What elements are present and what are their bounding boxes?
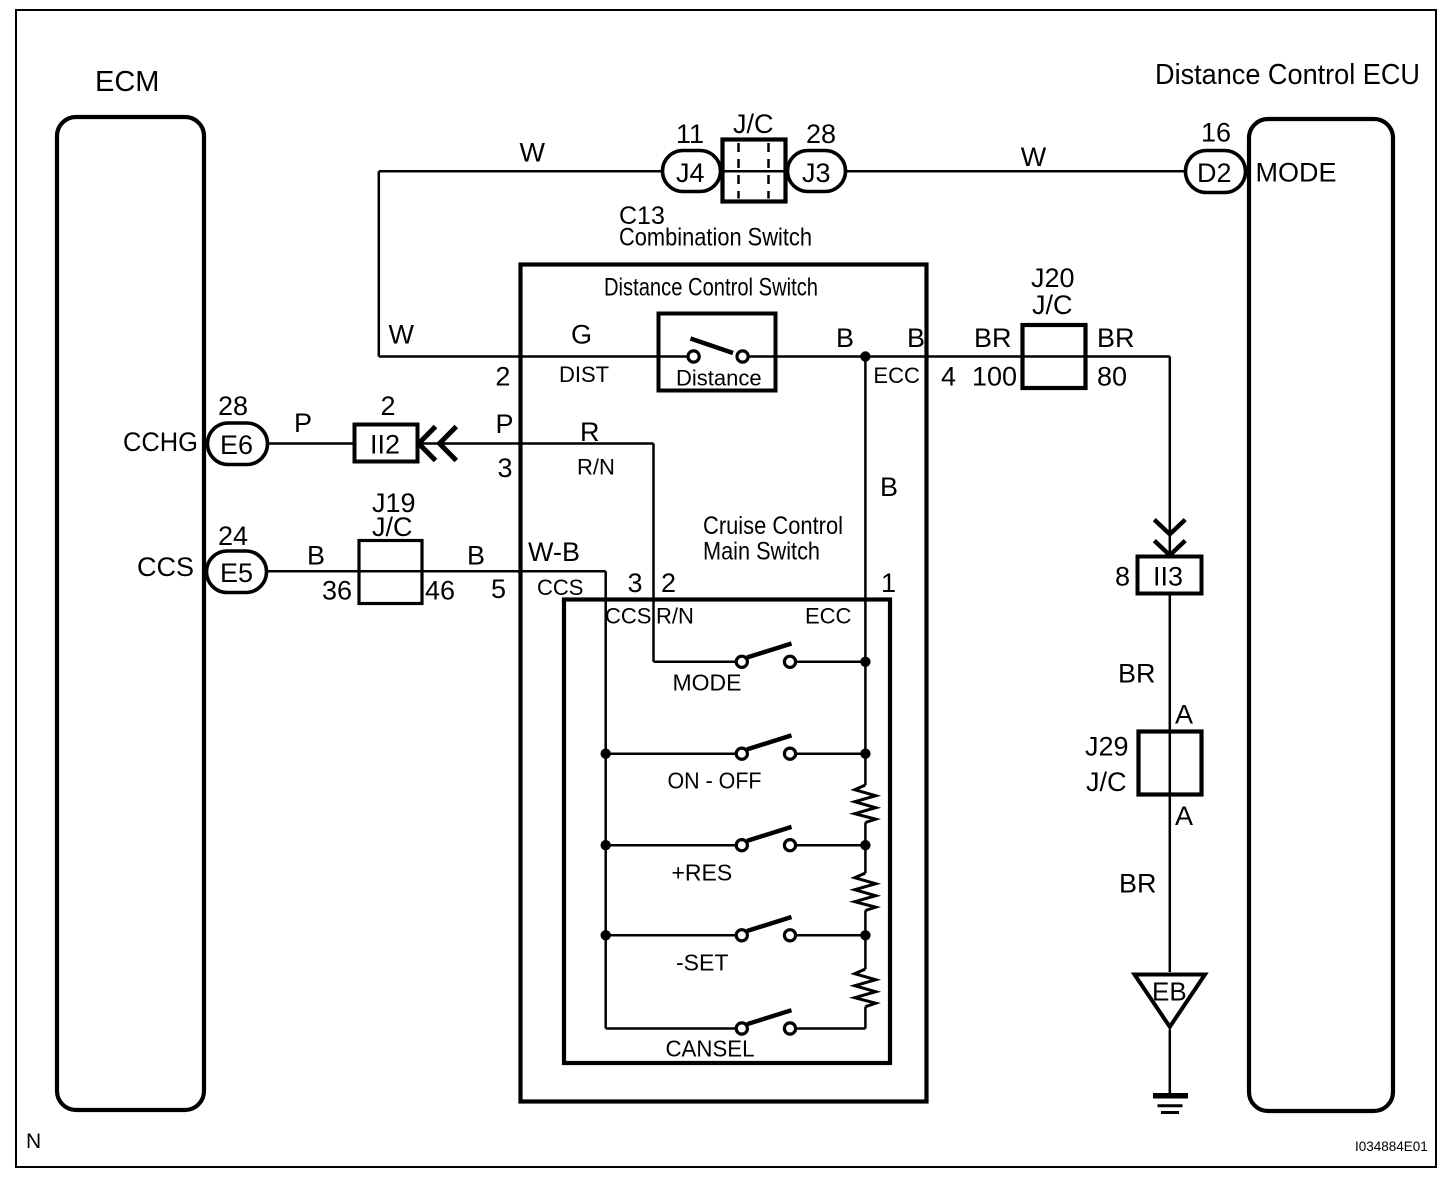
svg-text:3: 3 <box>628 568 643 598</box>
svg-text:CCS: CCS <box>137 552 194 582</box>
connector II2 pin 2 <box>355 391 418 462</box>
svg-text:B: B <box>836 323 854 353</box>
junction dot on CCS line <box>601 840 611 850</box>
Distance Control ECU block <box>1155 59 1420 1111</box>
switch -SET <box>601 917 871 976</box>
wire B (Distance switch to J20) <box>748 323 1022 392</box>
contact left <box>736 656 747 667</box>
wire B / W-B (J19 into switch) <box>422 537 606 604</box>
svg-text:W: W <box>1021 142 1047 172</box>
svg-text:W: W <box>520 138 546 168</box>
svg-text:2: 2 <box>661 568 676 598</box>
svg-text:E5: E5 <box>220 558 253 588</box>
connector J4 pin 11 <box>663 119 721 192</box>
svg-text:3: 3 <box>498 453 513 483</box>
contact left <box>736 930 747 941</box>
svg-text:16: 16 <box>1201 118 1231 148</box>
svg-text:D2: D2 <box>1197 158 1232 188</box>
svg-text:Distance: Distance <box>676 366 762 391</box>
svg-text:Distance Control Switch: Distance Control Switch <box>604 274 818 302</box>
resistor (ON-OFF to +RES) <box>855 785 876 845</box>
switch ON-OFF <box>601 735 871 793</box>
svg-text:+RES: +RES <box>672 860 733 886</box>
wire W top vertical drop <box>379 171 415 356</box>
node ECC junction <box>860 351 870 361</box>
svg-text:DIST: DIST <box>559 362 609 387</box>
switch CANSEL <box>606 1010 866 1061</box>
svg-text:R/N: R/N <box>577 455 615 480</box>
svg-text:W-B: W-B <box>528 537 580 567</box>
junction dot <box>860 930 870 940</box>
wire W top horizontal (ECM side to J4) <box>379 138 663 172</box>
svg-text:N: N <box>26 1130 41 1153</box>
svg-text:4: 4 <box>941 362 956 392</box>
junction dot <box>860 840 870 850</box>
wire CCS line to contact <box>606 752 737 755</box>
label N <box>26 1130 41 1153</box>
svg-text:I034884E01: I034884E01 <box>1355 1139 1428 1154</box>
svg-text:46: 46 <box>425 576 455 606</box>
svg-text:2: 2 <box>495 362 510 392</box>
switch lever <box>747 827 792 841</box>
Cruise Control Main Switch box <box>564 512 896 1063</box>
svg-text:1: 1 <box>881 568 896 598</box>
svg-text:24: 24 <box>218 521 248 551</box>
svg-text:BR: BR <box>1118 659 1156 689</box>
svg-text:J/C: J/C <box>1086 767 1127 797</box>
wire BR (J29 to EB) <box>1119 795 1193 973</box>
wire BR (II3 to J29) <box>1118 594 1193 732</box>
junction dot on CCS line <box>601 930 611 940</box>
contact left <box>688 351 699 362</box>
wire B (E5 to J19) <box>267 541 360 572</box>
svg-text:R/N: R/N <box>656 604 694 629</box>
svg-text:B: B <box>467 541 485 571</box>
connector D2 pin 16 MODE <box>1186 118 1337 193</box>
svg-text:MODE: MODE <box>1256 158 1337 188</box>
svg-text:100: 100 <box>972 362 1017 392</box>
wire CCS line to contact <box>606 844 737 847</box>
switch MODE <box>654 644 871 696</box>
svg-text:A: A <box>1175 801 1193 831</box>
connector J3 pin 28 <box>788 119 846 192</box>
Distance Control Switch box <box>521 265 927 1102</box>
svg-text:CCS: CCS <box>605 604 651 629</box>
wire P/R (II2 to R/N drop) <box>418 409 654 483</box>
svg-text:J/C: J/C <box>372 512 413 542</box>
svg-text:EB: EB <box>1152 977 1187 1007</box>
svg-text:CANSEL: CANSEL <box>666 1036 755 1062</box>
junction dot on CCS line <box>601 749 611 759</box>
svg-text:CCS: CCS <box>537 575 583 600</box>
connector E6 pin 28 CCHG <box>123 391 268 465</box>
wire to ECC line <box>796 752 866 755</box>
svg-text:J4: J4 <box>676 158 705 188</box>
svg-text:E6: E6 <box>220 430 253 460</box>
svg-text:Distance Control ECU: Distance Control ECU <box>1155 59 1420 91</box>
svg-text:R: R <box>580 417 600 447</box>
switch lever <box>747 644 792 658</box>
svg-text:J29: J29 <box>1085 732 1129 762</box>
wire CCS line to contact <box>606 1027 737 1030</box>
wire B/ECC vertical (junction to main switch) <box>865 357 898 786</box>
svg-text:A: A <box>1175 700 1193 730</box>
svg-text:80: 80 <box>1097 362 1127 392</box>
switch +RES <box>601 827 871 886</box>
svg-text:Main Switch: Main Switch <box>703 538 820 566</box>
svg-text:5: 5 <box>491 574 506 604</box>
wire CCS line to contact <box>606 934 737 937</box>
svg-text:BR: BR <box>1097 323 1135 353</box>
svg-text:II2: II2 <box>370 430 400 460</box>
contact right <box>784 930 795 941</box>
connector E5 pin 24 CCS <box>137 521 267 593</box>
wire EB to ground <box>1169 1030 1172 1094</box>
splice arrows into II3 <box>1154 520 1185 556</box>
contact left <box>736 1023 747 1034</box>
svg-text:8: 8 <box>1115 562 1130 592</box>
wire to resistor chain <box>796 1027 866 1030</box>
svg-text:BR: BR <box>1119 869 1157 899</box>
wire to ECC line <box>796 844 866 847</box>
svg-text:11: 11 <box>676 119 704 149</box>
wire BR (J20 to right drop) <box>1086 323 1170 392</box>
junction dot <box>860 657 870 667</box>
svg-text:36: 36 <box>322 576 352 606</box>
contact right <box>784 748 795 759</box>
svg-text:ECM: ECM <box>95 66 159 98</box>
svg-text:ECC: ECC <box>873 363 920 388</box>
contact right <box>737 351 748 362</box>
connector II3 pin 8 <box>1115 557 1202 594</box>
svg-text:J3: J3 <box>802 158 831 188</box>
svg-text:28: 28 <box>218 391 248 421</box>
wire BR vertical drop to II3 <box>1169 357 1172 557</box>
contact left <box>736 840 747 851</box>
svg-text:MODE: MODE <box>673 670 742 696</box>
ECM block <box>57 66 204 1110</box>
svg-text:-SET: -SET <box>676 950 728 976</box>
contact right <box>784 1023 795 1034</box>
wire to ECC line <box>796 934 866 937</box>
wire W (J3 to D2) <box>845 142 1186 172</box>
svg-text:W: W <box>389 320 415 350</box>
svg-text:BR: BR <box>974 323 1012 353</box>
svg-text:II3: II3 <box>1153 562 1183 592</box>
splice arrows into II2 <box>419 427 457 461</box>
svg-text:Combination Switch: Combination Switch <box>619 224 812 252</box>
svg-text:Cruise Control: Cruise Control <box>703 512 843 540</box>
svg-text:28: 28 <box>806 119 836 149</box>
wire to ECC line <box>796 661 866 664</box>
svg-text:ON - OFF: ON - OFF <box>668 768 762 794</box>
svg-text:ECC: ECC <box>805 604 852 629</box>
junction connector J19 J/C pins 36/46 <box>322 488 455 606</box>
svg-text:B: B <box>880 472 898 502</box>
contact left <box>736 748 747 759</box>
svg-text:J/C: J/C <box>733 109 774 139</box>
svg-text:B: B <box>907 323 925 353</box>
contact right <box>784 656 795 667</box>
ground <box>1153 1096 1188 1113</box>
junction connector J29 J/C <box>1085 732 1202 798</box>
svg-text:P: P <box>496 409 514 439</box>
ground point EB <box>1135 975 1206 1027</box>
svg-text:2: 2 <box>381 391 396 421</box>
switch lever <box>747 735 792 749</box>
junction connector J20 J/C <box>1023 263 1086 388</box>
label I034884E01 <box>1355 1139 1428 1154</box>
junction connector J/C (C13 row) <box>723 109 786 202</box>
wire R/N vertical drop <box>652 444 655 662</box>
svg-text:P: P <box>294 408 312 438</box>
switch lever <box>747 1010 792 1024</box>
contact right <box>784 840 795 851</box>
svg-text:B: B <box>307 541 325 571</box>
switch lever <box>691 339 734 354</box>
svg-text:J/C: J/C <box>1032 290 1073 320</box>
svg-text:J20: J20 <box>1031 263 1075 293</box>
switch Distance <box>659 314 776 391</box>
junction dot <box>860 749 870 759</box>
svg-text:G: G <box>571 320 592 350</box>
label C13 Combination Switch <box>619 202 812 252</box>
resistor (+RES to -SET) <box>855 845 876 935</box>
wire G row (to Distance switch) <box>379 320 689 392</box>
svg-text:CCHG: CCHG <box>123 427 198 457</box>
wire P (E6 to II2) <box>268 408 355 444</box>
switch lever <box>747 917 792 931</box>
wire R/N to MODE contact <box>654 661 737 664</box>
resistor (-SET to CANSEL) <box>855 935 876 1028</box>
wire CCS vertical drop <box>604 571 607 1028</box>
